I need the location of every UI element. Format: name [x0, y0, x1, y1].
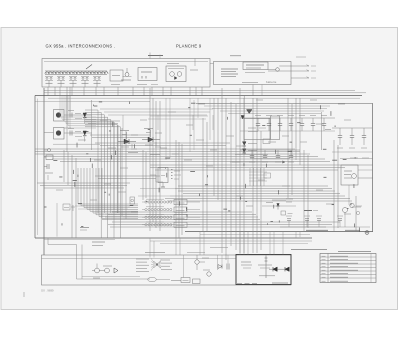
svg-text:GX . 9699: GX . 9699: [41, 289, 54, 293]
svg-text:GX 955a . INTERCONNEXIONS .: GX 955a . INTERCONNEXIONS .: [46, 44, 116, 49]
svg-text:batterie: batterie: [266, 80, 277, 84]
svg-text:PLANCHE 9: PLANCHE 9: [176, 44, 202, 49]
